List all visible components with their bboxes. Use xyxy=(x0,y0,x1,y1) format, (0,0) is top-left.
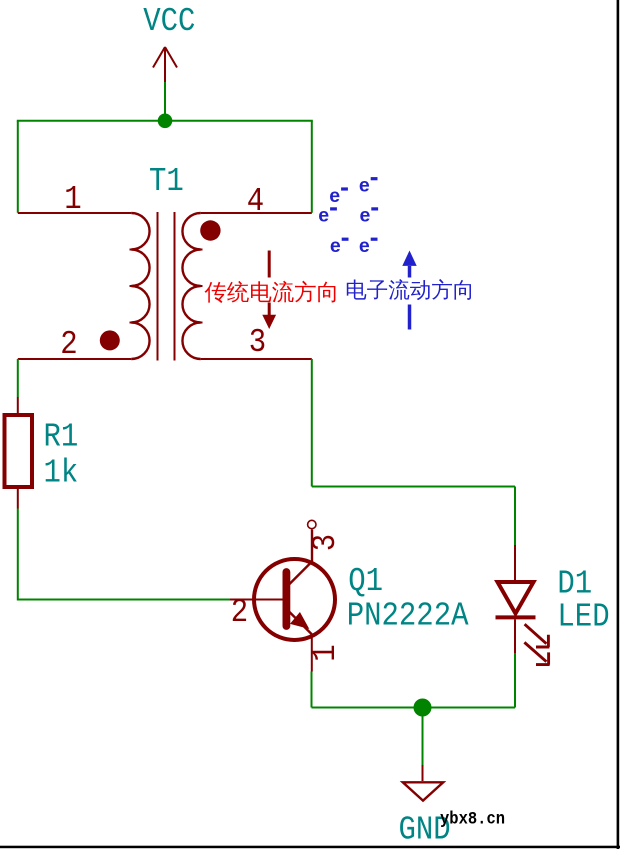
transistor Q1 base pin wire xyxy=(230,599,284,601)
transformer T1 secondary winding xyxy=(182,213,202,359)
svg-text:4: 4 xyxy=(247,183,264,220)
transformer T1 pin 2 wire xyxy=(18,358,132,360)
LED D1 cathode bar xyxy=(496,615,536,619)
electron label e- #6 xyxy=(359,235,378,257)
transistor Q1 emitter arrow xyxy=(291,613,308,628)
red arrow: conventional current direction xyxy=(262,251,276,330)
svg-text:2: 2 xyxy=(60,326,77,363)
annotation text: conventional current direction (red) xyxy=(205,281,336,303)
transistor Q1 collector xyxy=(288,530,313,587)
svg-text:PN2222A: PN2222A xyxy=(347,598,469,635)
transistor Q1 body circle xyxy=(254,559,335,640)
transformer T1 pin 3 wire xyxy=(201,358,312,360)
wire emitter to bottom rail xyxy=(311,672,313,708)
resistor R1 body xyxy=(5,415,33,487)
resistor R1 top pin xyxy=(17,397,19,414)
svg-text:1: 1 xyxy=(64,181,81,218)
transformer T1 primary winding xyxy=(130,213,150,359)
electron label e- #5 xyxy=(330,235,349,257)
wire pin 2 to R1 xyxy=(17,359,19,397)
LED D1 bottom pin (cathode) xyxy=(514,619,516,653)
svg-text:1: 1 xyxy=(307,644,344,661)
transformer T1 core xyxy=(158,212,175,361)
wire left drop to pin 1 xyxy=(17,121,19,213)
LED D1 emission arrow 1 xyxy=(525,624,550,647)
svg-text:D1: D1 xyxy=(557,566,592,603)
junction dot at VCC node xyxy=(158,114,173,129)
wire VCC stem xyxy=(164,82,166,121)
blue arrow: electron flow direction xyxy=(402,251,416,330)
transistor Q1 emitter xyxy=(288,610,313,635)
svg-text:Q1: Q1 xyxy=(348,563,383,600)
svg-text:ybx8.cn: ybx8.cn xyxy=(440,810,505,830)
svg-text:LED: LED xyxy=(557,599,609,636)
transformer T1 pin 4 wire xyxy=(201,212,312,214)
svg-text:e: e xyxy=(360,205,371,227)
svg-text:e: e xyxy=(330,235,341,257)
wire right drop to pin 4 xyxy=(311,121,313,213)
power symbol VCC xyxy=(153,47,177,82)
wire LED to bottom rail xyxy=(514,653,516,708)
wire across to LED xyxy=(312,486,515,488)
junction dot at GND node xyxy=(414,699,432,717)
svg-text:e: e xyxy=(318,205,329,227)
svg-text:R1: R1 xyxy=(44,419,79,456)
LED D1 top pin (anode) xyxy=(514,545,516,581)
wire down to LED xyxy=(514,487,516,546)
LED D1 triangle xyxy=(498,582,534,614)
resistor R1 bottom pin xyxy=(17,487,19,509)
image border right xyxy=(617,0,620,849)
transistor Q1 base bar xyxy=(282,572,290,626)
electron label e- #3 xyxy=(318,205,337,227)
svg-text:3: 3 xyxy=(249,324,266,361)
transistor Q1 collector pin end circle xyxy=(308,520,316,528)
wire pin 3 down xyxy=(311,359,313,487)
svg-text:2: 2 xyxy=(231,594,248,631)
electron label e- #2 xyxy=(329,185,348,207)
electron label e- #1 xyxy=(359,175,378,197)
GND pin wire xyxy=(422,765,424,781)
svg-text:3: 3 xyxy=(307,534,344,551)
polarity dot primary (pin 2 side) xyxy=(100,330,120,350)
transformer T1 pin 1 wire xyxy=(18,212,132,214)
polarity dot secondary (pin 4 side) xyxy=(200,220,220,240)
svg-text:e: e xyxy=(359,175,370,197)
transistor Q1 emitter pin xyxy=(311,635,313,672)
annotation text: electron flow direction (blue) xyxy=(347,279,471,300)
wire R1 to base corner xyxy=(18,509,230,600)
wire bottom rail xyxy=(312,707,516,709)
svg-text:VCC: VCC xyxy=(143,3,195,40)
electron label e- #4 xyxy=(360,205,379,227)
LED D1 emission arrow 2 xyxy=(524,642,549,664)
svg-text:e: e xyxy=(329,185,340,207)
image border bottom xyxy=(0,846,620,849)
wire top rail xyxy=(17,120,313,122)
svg-text:e: e xyxy=(359,235,370,257)
svg-text:T1: T1 xyxy=(149,163,184,200)
wire junction to GND xyxy=(422,708,424,766)
ground symbol xyxy=(403,782,443,800)
svg-text:1k: 1k xyxy=(44,455,79,492)
